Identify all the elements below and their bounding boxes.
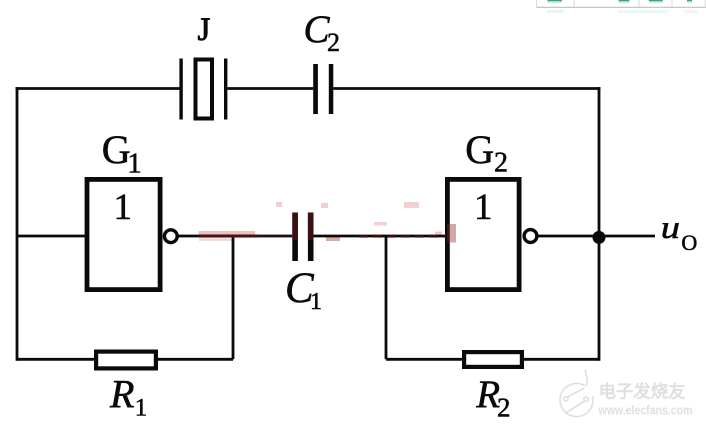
red watermark band on middle wire	[199, 202, 443, 241]
crystal J	[179, 59, 227, 120]
svg-text:2: 2	[327, 28, 340, 57]
dark red tint over wire segments (watermark overlap)	[199, 234, 258, 237]
wire: branch x=233 down	[232, 236, 235, 359]
svg-text:1: 1	[114, 187, 133, 228]
svg-text:J: J	[198, 12, 211, 48]
capacitor C2	[313, 64, 333, 114]
gray elecfans watermark bottom-right	[560, 370, 593, 417]
wire: left rail	[16, 87, 19, 361]
svg-text:u: u	[661, 210, 680, 245]
svg-text:www.elecfans.com: www.elecfans.com	[598, 403, 693, 418]
wire: top rail middle segment	[228, 87, 314, 90]
svg-text:O: O	[681, 230, 697, 255]
resistor R2	[464, 352, 522, 367]
capacitor C1	[292, 213, 313, 262]
wire: G1 output to C1	[178, 235, 293, 238]
wire: branch x=386 down	[385, 236, 388, 359]
svg-text:1: 1	[135, 395, 148, 422]
wire: top rail left segment	[16, 87, 180, 90]
svg-text:2: 2	[494, 148, 508, 179]
inverter G2	[447, 179, 536, 289]
wire: G2 output to uO	[537, 235, 655, 238]
resistor R1	[96, 352, 156, 369]
svg-text:电子发烧友: 电子发烧友	[599, 382, 686, 402]
wire: bottom-left rail	[17, 358, 233, 361]
svg-text:1: 1	[474, 187, 493, 228]
svg-text:G: G	[465, 127, 494, 172]
svg-text:R: R	[109, 372, 134, 417]
junction node	[593, 231, 606, 244]
wire: G1 input	[17, 235, 86, 238]
svg-text:2: 2	[497, 393, 511, 423]
inverter G1	[87, 179, 177, 289]
svg-text:1: 1	[310, 289, 322, 315]
wire: right rail	[598, 87, 601, 361]
wire: C1 to G2 input	[313, 235, 446, 238]
svg-text:1: 1	[127, 148, 142, 180]
wire: bottom-right rail	[386, 358, 599, 361]
toolbar fragment top-right	[537, 0, 706, 13]
wire: top rail right segment	[333, 87, 600, 90]
